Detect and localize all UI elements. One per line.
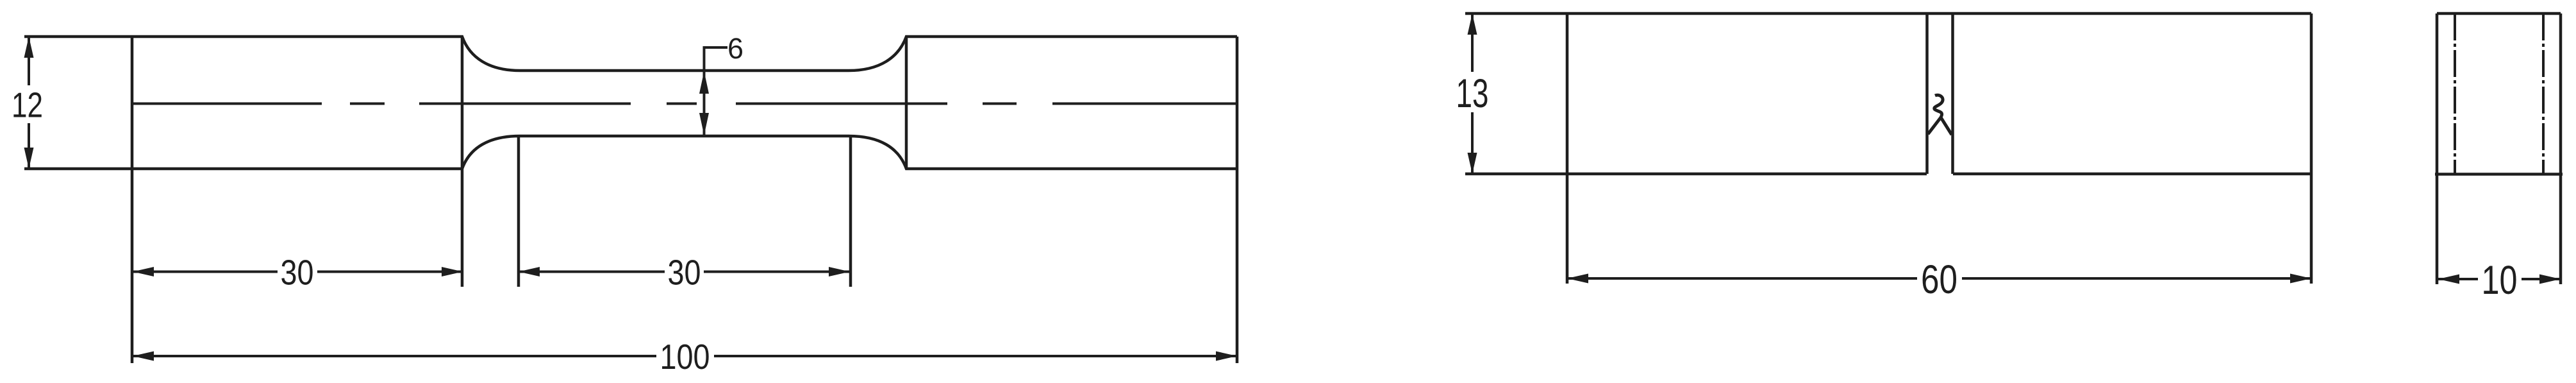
svg-text:13: 13 [1456, 71, 1489, 116]
svg-text:30: 30 [668, 253, 701, 293]
svg-text:100: 100 [660, 337, 710, 377]
svg-text:10: 10 [2482, 258, 2518, 303]
svg-text:12: 12 [12, 85, 43, 125]
svg-text:60: 60 [1921, 257, 1957, 302]
svg-text:6: 6 [727, 32, 744, 65]
svg-text:30: 30 [281, 253, 314, 293]
